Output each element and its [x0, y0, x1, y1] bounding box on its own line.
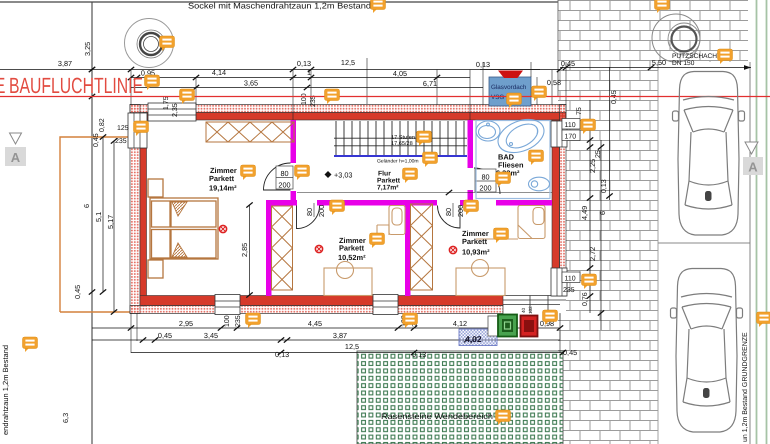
svg-text:un 1,2m Bestand GRUNDGRENZE: un 1,2m Bestand GRUNDGRENZE: [741, 332, 749, 442]
svg-text:3,45: 3,45: [204, 331, 218, 340]
entrance red mark: [498, 71, 523, 79]
section marker A left box: [5, 147, 26, 166]
svg-text:4,14: 4,14: [212, 68, 226, 77]
note marker rasensteine: [496, 410, 511, 425]
interior wall V1 lower: [291, 191, 297, 205]
door Z1 label 80/200: [276, 166, 293, 190]
x-hatch column left: [272, 206, 293, 290]
door Z3 label 80/200 rotated: [444, 203, 465, 217]
svg-text:4,05: 4,05: [393, 69, 407, 78]
svg-text:Flur: Flur: [378, 171, 391, 178]
note marker fence left: [23, 337, 38, 352]
plot boundary vertical x92: [91, 2, 93, 444]
svg-text:2,95: 2,95: [179, 319, 193, 328]
red socket dot Z2: [315, 245, 322, 252]
svg-text:endrahtzaun 1,2m Bestand: endrahtzaun 1,2m Bestand: [1, 345, 10, 435]
red meter box: [521, 316, 538, 337]
note marker stairs: [417, 131, 432, 146]
bottom extension lines: [131, 313, 560, 353]
brick paving area top right: [558, 0, 748, 62]
car 2: [671, 269, 743, 433]
Glasvordach blue box: [489, 77, 531, 106]
svg-text:12,5: 12,5: [345, 342, 359, 351]
svg-text:Parkett: Parkett: [462, 237, 488, 246]
svg-text:40: 40: [521, 307, 526, 313]
top right dim 5,50: [560, 67, 751, 69]
note marker vordach: [507, 93, 522, 108]
door BAD arc: [474, 168, 500, 194]
note marker window b1: [246, 313, 261, 328]
note marker window b2: [403, 313, 418, 328]
bed pillows hatched: [172, 202, 187, 216]
svg-text:E: E: [0, 73, 6, 98]
note marker zimmer2: [370, 233, 385, 248]
svg-text:2,35: 2,35: [172, 103, 179, 117]
tan boundary of existing building: [60, 137, 131, 312]
svg-text:DN 150: DN 150: [672, 60, 695, 67]
svg-text:80: 80: [280, 169, 288, 178]
left vertical dim lines: [89, 67, 95, 72]
svg-text:10,52m²: 10,52m²: [338, 253, 366, 262]
svg-text:102: 102: [528, 306, 533, 314]
svg-text:80: 80: [444, 208, 453, 216]
note marker front center: [325, 89, 340, 104]
note marker bauflucht: [145, 75, 160, 90]
PUTZSCHACHT circles: [652, 14, 700, 62]
right wall stipple band: [560, 105, 567, 297]
svg-text:125: 125: [117, 125, 129, 132]
tree circle top: [125, 19, 174, 68]
green Rasensteine area: [357, 351, 563, 444]
svg-text:17 Stufen: 17 Stufen: [391, 134, 415, 141]
svg-text:0,13: 0,13: [601, 179, 608, 193]
svg-text:0,82: 0,82: [99, 118, 106, 132]
section marker A right triangle: [745, 142, 758, 154]
bed Zimmer1: [148, 179, 218, 278]
note marker window right: [581, 119, 596, 134]
svg-text:0,13: 0,13: [275, 350, 289, 359]
bath tiles border: [476, 121, 550, 199]
note marker front left: [180, 89, 195, 104]
room label Zimmer1: [209, 166, 237, 193]
terrace corner steps: [503, 296, 566, 314]
svg-text:100: 100: [224, 315, 231, 327]
note marker door right: [582, 274, 597, 289]
svg-text:0,45: 0,45: [563, 348, 577, 357]
door right wall 110/235: [551, 268, 567, 296]
svg-text:4,12: 4,12: [453, 319, 467, 328]
Z2 room height dim 2,85: [249, 205, 251, 295]
svg-text:Rasensteine Wendebereich: Rasensteine Wendebereich: [381, 412, 493, 421]
svg-text:PUTZSCHACHT: PUTZSCHACHT: [672, 53, 721, 60]
note marker vordach right: [532, 86, 547, 101]
svg-text:2,85: 2,85: [240, 243, 249, 257]
bottom dim chain line 2: [92, 339, 560, 341]
svg-text:A: A: [748, 160, 758, 175]
svg-text:0,13: 0,13: [412, 350, 426, 359]
note marker door z1: [295, 165, 310, 180]
note marker door z3: [464, 200, 479, 215]
svg-text:3,25: 3,25: [83, 42, 92, 56]
window bottom wall right 100/235: [373, 295, 398, 315]
furniture Zimmer3: [456, 206, 545, 296]
svg-text:4,45: 4,45: [308, 319, 322, 328]
svg-text:Geländer h=1,00m: Geländer h=1,00m: [377, 159, 419, 165]
section marker A left triangle: [10, 133, 22, 144]
bottom wall red band: [140, 296, 503, 306]
svg-text:110: 110: [565, 122, 576, 129]
small white box: [488, 316, 499, 336]
note marker tree: [160, 36, 175, 51]
room label Zimmer2: [338, 236, 366, 262]
plot boundary vertical x558: [557, 0, 559, 97]
svg-text:0,45: 0,45: [158, 331, 172, 340]
right wall red band: [552, 120, 560, 296]
car 1: [673, 72, 745, 236]
stairs guard blue line: [334, 155, 467, 157]
furniture Zimmer2: [324, 206, 405, 296]
plot boundary top line: [0, 1, 558, 3]
note marker meters: [543, 310, 558, 325]
svg-text:Parkett: Parkett: [339, 244, 365, 253]
bottom dim chain line 3: [131, 352, 563, 354]
svg-text:75: 75: [576, 107, 583, 115]
svg-text:4,49: 4,49: [580, 206, 589, 220]
note marker door bad: [496, 172, 511, 187]
chimney x-hatch top: [206, 122, 294, 142]
top dim chain line 1: [0, 69, 560, 71]
bath tub: [493, 113, 549, 159]
svg-text:BAUFLUCHTLINIE: BAUFLUCHTLINIE: [9, 73, 143, 98]
svg-text:Parkett: Parkett: [209, 174, 235, 183]
svg-text:200: 200: [479, 184, 491, 193]
stairs: [334, 121, 467, 155]
svg-text:6,71: 6,71: [423, 79, 437, 88]
window right wall 110/170: [551, 121, 567, 147]
svg-text:3,87: 3,87: [333, 331, 347, 340]
svg-text:1,75: 1,75: [163, 96, 170, 110]
section marker A right box: [743, 157, 763, 175]
svg-text:200: 200: [317, 205, 326, 217]
svg-text:Parkett: Parkett: [377, 178, 401, 185]
room label Zimmer3: [462, 229, 490, 257]
parking divider: [658, 242, 750, 244]
svg-text:6: 6: [598, 211, 607, 215]
x-hatch column right: [411, 204, 433, 290]
window bottom wall left 100/235: [215, 295, 240, 315]
door Z2 label 80/200 rotated: [305, 203, 326, 217]
svg-text:25: 25: [595, 150, 602, 158]
svg-text:100: 100: [301, 93, 308, 105]
brick paving area right column: [558, 62, 658, 444]
svg-text:5,50: 5,50: [652, 58, 666, 67]
corridor wall H1 segments: [266, 200, 297, 206]
svg-text:3,65: 3,65: [244, 79, 258, 88]
svg-text:170: 170: [565, 134, 577, 141]
room label BAD: [496, 153, 524, 178]
interior wall V3: [405, 200, 411, 296]
note marker window left: [134, 121, 149, 136]
note marker zimmer1: [241, 165, 256, 180]
svg-text:5,1: 5,1: [94, 212, 103, 222]
svg-text:7,17m²: 7,17m²: [377, 185, 399, 192]
svg-text:235: 235: [563, 287, 575, 294]
top wall red band: [143, 113, 566, 121]
note marker door z2: [330, 200, 345, 215]
svg-text:A: A: [11, 150, 21, 165]
svg-text:12,5: 12,5: [341, 58, 355, 67]
svg-text:Glasvordach: Glasvordach: [491, 84, 527, 91]
svg-text:10,93m²: 10,93m²: [462, 248, 490, 257]
top wall stipple band: [130, 105, 566, 113]
note marker zimmer3: [494, 228, 509, 243]
window left wall 125/235: [128, 113, 147, 148]
svg-text:5,17: 5,17: [106, 215, 115, 229]
svg-text:1: 1: [307, 68, 311, 77]
svg-text:Sockel mit Maschendrahtzaun 1,: Sockel mit Maschendrahtzaun 1,2m Bestand: [188, 2, 371, 11]
note marker gelaender: [423, 152, 438, 167]
svg-text:0,13: 0,13: [297, 59, 311, 68]
bath washbasin: [476, 121, 500, 141]
red socket dot Z3: [449, 246, 456, 253]
flur dim line: [297, 192, 552, 194]
svg-text:0,76: 0,76: [582, 292, 589, 306]
110/235 door label right: [562, 272, 580, 294]
parking lane left edge: [657, 62, 659, 444]
bottom dim chain line 1: [92, 327, 560, 329]
door Z1 arc: [264, 163, 291, 190]
note marker flur: [403, 168, 418, 183]
door Z3 arc: [438, 206, 461, 229]
svg-text:17,65/28: 17,65/28: [391, 140, 413, 147]
svg-text:4,02: 4,02: [465, 334, 482, 344]
left wall red band: [140, 148, 147, 306]
right vertical dim lines: [590, 67, 610, 330]
note marker bad: [529, 150, 544, 165]
top dim chain line 3: [131, 87, 483, 89]
svg-text:VSG: VSG: [491, 94, 504, 101]
toilet: [529, 177, 550, 191]
interior wall V4 bad: [468, 120, 474, 168]
door BAD label 80/200: [475, 169, 496, 193]
svg-text:235: 235: [235, 315, 242, 327]
110/170 window label right: [562, 119, 580, 141]
level mark flur: [325, 171, 332, 178]
svg-text:2,72: 2,72: [588, 247, 597, 261]
svg-text:200: 200: [278, 181, 290, 190]
svg-text:0,58: 0,58: [547, 78, 561, 87]
right boundary grey line: [749, 62, 751, 444]
svg-text:+3,03: +3,03: [334, 171, 352, 180]
note marker top paving: [655, 0, 670, 13]
blue check box 4,02: [459, 329, 497, 346]
green meter box: [498, 315, 517, 337]
svg-text:0,45: 0,45: [561, 59, 575, 68]
top dim chain line 2: [131, 77, 470, 79]
svg-text:3,87: 3,87: [58, 59, 72, 68]
red Bauflucht line: [0, 96, 770, 98]
svg-text:110: 110: [565, 276, 576, 283]
note marker grenze: [757, 312, 770, 327]
svg-text:6,3: 6,3: [61, 413, 70, 423]
svg-text:6: 6: [82, 204, 91, 208]
svg-text:0,45: 0,45: [93, 133, 100, 147]
red socket dot Z1: [219, 225, 226, 232]
GRUNDGRENZE green double line: [756, 0, 758, 444]
interior wall V2: [266, 200, 272, 296]
building interior white: [130, 104, 566, 314]
svg-text:19,14m²: 19,14m²: [209, 184, 237, 193]
svg-text:2,25: 2,25: [588, 159, 597, 173]
svg-text:0,45: 0,45: [73, 285, 82, 299]
note marker putzschacht: [718, 49, 733, 64]
window top wall: [148, 103, 196, 121]
svg-text:80: 80: [305, 208, 314, 216]
left wall stipple band: [130, 105, 140, 314]
extension lines above building: [131, 58, 566, 120]
room label Flur: [377, 171, 401, 192]
svg-text:80: 80: [481, 173, 489, 182]
door Z2 arc: [297, 206, 320, 229]
bottom wall stipple band: [130, 306, 503, 314]
note marker top fence: [371, 0, 386, 13]
interior wall V1 stair/Z1: [291, 120, 297, 163]
